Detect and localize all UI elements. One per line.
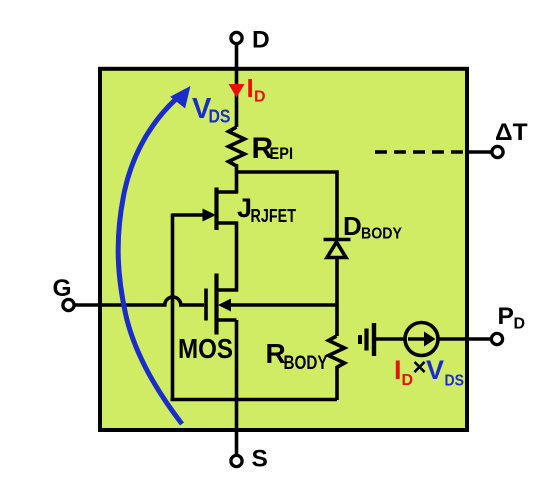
wire bottom rail bbox=[171, 398, 338, 402]
wire diode to R_BODY bbox=[335, 257, 339, 336]
terminal P_D bbox=[491, 333, 502, 344]
svg-text:V: V bbox=[426, 355, 444, 385]
current arrow I_D (red) bbox=[229, 84, 245, 98]
svg-text:S: S bbox=[252, 446, 268, 473]
svg-text:BODY: BODY bbox=[284, 353, 328, 374]
wire MOS source to S bbox=[217, 320, 237, 455]
wire ground to current source bbox=[374, 337, 406, 341]
wire R_EPI to JFET drain bbox=[217, 164, 237, 192]
svg-text:MOS: MOS bbox=[178, 333, 233, 364]
svg-text:D: D bbox=[252, 27, 270, 54]
wire G with hop over vertical bbox=[75, 297, 204, 305]
terminal G bbox=[63, 299, 74, 310]
wire D terminal to R_EPI bbox=[235, 43, 239, 127]
svg-text:D: D bbox=[514, 316, 526, 333]
transistor J_RJFET bbox=[173, 188, 237, 291]
wire JFET gate down to source rail bbox=[171, 214, 175, 400]
svg-text:RJFET: RJFET bbox=[251, 206, 297, 226]
ground symbol bbox=[360, 323, 374, 356]
arrow V_DS (blue) bbox=[118, 86, 190, 424]
svg-text:G: G bbox=[53, 275, 72, 302]
svg-text:BODY: BODY bbox=[361, 226, 402, 243]
wire current source to P_D terminal bbox=[438, 337, 491, 341]
svg-text:D: D bbox=[402, 372, 414, 389]
terminal D bbox=[231, 32, 242, 43]
resistor R_EPI bbox=[229, 127, 245, 166]
dashed wire to dT terminal bbox=[375, 150, 466, 154]
transistor MOS bbox=[206, 274, 337, 335]
svg-text:D: D bbox=[254, 89, 266, 106]
svg-text:ΔT: ΔT bbox=[495, 119, 528, 146]
svg-text:D: D bbox=[343, 211, 362, 241]
diode D_BODY bbox=[324, 240, 351, 258]
svg-text:EPI: EPI bbox=[270, 145, 294, 163]
svg-text:DS: DS bbox=[209, 107, 231, 127]
svg-text:×: × bbox=[413, 354, 427, 381]
svg-text:I: I bbox=[394, 355, 402, 385]
terminal dT bbox=[492, 146, 503, 157]
current source P_D bbox=[405, 323, 438, 356]
terminal S bbox=[231, 455, 242, 466]
svg-text:P: P bbox=[498, 303, 514, 330]
svg-text:DS: DS bbox=[445, 373, 465, 390]
resistor R_BODY bbox=[329, 336, 345, 368]
wire R_BODY to bottom rail bbox=[335, 366, 339, 400]
wire node to D_BODY bbox=[237, 172, 338, 238]
chip boundary box bbox=[100, 69, 467, 430]
svg-text:I: I bbox=[247, 73, 254, 103]
